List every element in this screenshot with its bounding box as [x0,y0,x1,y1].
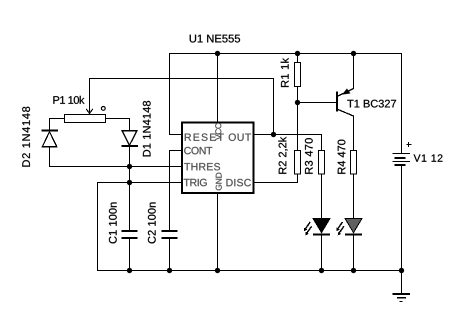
node T1 base junction [295,100,300,105]
wire LED1 cathode to rail [321,235,323,271]
node R1 at top rail [295,51,300,56]
node GND pin at ground rail [215,268,220,273]
label R4 470 [338,140,346,174]
diode D1 triangle [122,131,137,146]
label R2 2,2k [278,137,287,174]
wire P1 left end to D2 [50,119,65,131]
diode D2 cathode bar [42,130,59,132]
label R3 470 [305,138,313,174]
wire bottom ground rail [98,270,402,272]
pin name DISC [226,179,250,186]
wire P1 right end to D1 [106,119,130,131]
LED1 emission arrow lower [307,226,312,233]
pin name GND [216,173,222,191]
node VCC at top rail [215,51,220,56]
wire R3 to LED1 [321,174,323,218]
wire C1 bottom lead [129,238,131,271]
wire R2 to DISC pin [254,174,298,183]
wire rail to RESET pin [170,54,183,135]
resistor R2 body [295,151,301,175]
node C2 at ground rail [167,268,172,273]
diode D1 cathode bar [122,145,139,147]
label V1 12 [414,154,443,161]
capacitor C1 plates [122,230,138,232]
wire battery - to rail [401,165,403,271]
LED2 cathode bar [345,234,362,236]
potentiometer P1 index circle [101,107,105,111]
wire rail to ground symbol [401,271,403,294]
wire TRIG net drop to ground rail [97,183,99,271]
label R1 1k [281,58,289,87]
pin name CONT [184,147,212,154]
wire THRES net [50,166,183,168]
label P1 10k [53,96,84,104]
node LED2 at ground rail [351,268,356,273]
ground symbol [393,293,411,295]
label U1 NE555 [190,35,240,43]
node THRES junction [127,164,132,169]
pin name VCC [215,123,221,140]
node T1 emitter at top rail [351,51,356,56]
wire rail to battery + [401,54,403,154]
resistor R1 body [295,63,301,87]
label T1 BC327 [347,100,396,108]
wire D1 cathode down to C1 [129,146,131,230]
wire top +12V rail [170,53,402,55]
pin name THRES [184,163,220,170]
label D1 1N4148 [143,101,151,156]
label D2 1N4148 [22,107,30,167]
op-amp/timer U1 NE555 body [182,123,254,193]
LED1 cathode bar [313,234,330,236]
node battery at ground rail [399,268,404,273]
pin name OUT [229,133,251,140]
pin name RESET [185,133,224,140]
transistor T1 emitter arrow [342,89,350,95]
wire R1 to base node to R2 [297,87,299,151]
label C2 100n [148,202,156,243]
wire GND pin to ground rail [217,193,219,271]
diode D2 triangle [42,132,57,147]
battery V1 plates [393,153,411,155]
pin name TRIG [184,179,207,186]
wire D2 anode down [49,147,51,167]
wire T1 emitter to rail [338,54,354,97]
wire OUT node to P1 wiper [90,79,274,135]
wire CONT pin to C2 [170,151,183,231]
LED1 body (black) [313,218,330,232]
node LED1 at ground rail [319,268,324,273]
node C1 at ground rail [127,268,132,273]
wire OUT pin to R3 [254,135,322,151]
transistor T1 base bar [336,92,338,112]
LED2 body (gray) [345,218,362,232]
wire C2 bottom lead [169,238,171,271]
potentiometer P1 body [65,115,106,123]
wire rail to R1 [297,54,299,64]
LED2 emission arrow upper [338,222,343,229]
wire base node to T1 base [298,102,337,104]
wire R4 to LED2 [353,174,355,218]
capacitor C2 plates [162,230,178,232]
wire LED2 cathode to rail [353,235,355,271]
resistor R3 body [319,151,325,175]
resistor R4 body [351,151,357,175]
node OUT wiper junction [271,132,276,137]
wire T1 collector to R4 [338,110,354,151]
LED1 emission arrow upper [305,222,310,229]
potentiometer P1 wiper arrowhead [86,109,93,113]
LED2 emission arrow lower [339,226,344,233]
wire rail to VCC pin [217,54,219,123]
node TRIG junction [127,180,132,185]
label C1 100n [109,202,117,243]
battery V1 plus sign [407,144,412,146]
wire TRIG net [98,182,183,184]
